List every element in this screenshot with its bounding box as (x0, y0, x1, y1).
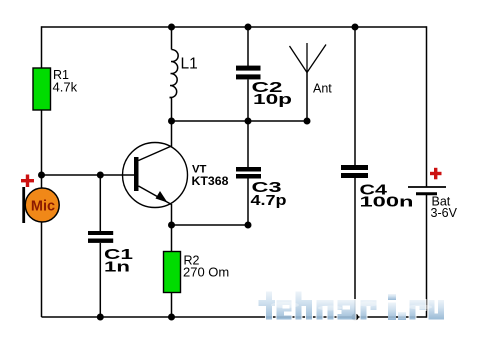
node: C3 bottom junction (245, 222, 252, 229)
transistor VT KT368 (123, 143, 188, 208)
wire: horizontal wire y=225 (172, 224, 249, 226)
microphone Mic (22, 187, 59, 223)
wire: base wire y=175 (42, 174, 136, 176)
svg-text:3-6V: 3-6V (431, 206, 458, 220)
node: L1 bottom junction (168, 118, 175, 125)
svg-text:4.7p: 4.7p (251, 193, 287, 209)
battery Bat (408, 187, 446, 194)
wire: C3 column lower (247, 179, 249, 226)
wm letter i bar (388, 303, 396, 321)
svg-text:Mic: Mic (31, 198, 55, 214)
wire: top rail y=27 (42, 26, 427, 28)
resistor R2 (164, 252, 181, 293)
wm letter i dot (388, 294, 396, 300)
wire: C4 column upper (354, 27, 356, 165)
svg-text:1n: 1n (104, 258, 130, 275)
resistor R1 (33, 68, 51, 110)
wm letter r (360, 300, 377, 321)
wire: C2 column upper (247, 27, 249, 66)
wire: horizontal rail y=121 (172, 120, 308, 122)
node: bottom junction C1 (97, 314, 104, 321)
wm letter h (295, 291, 313, 320)
capacitor C1 (88, 231, 113, 243)
wm letter a (337, 300, 356, 321)
wire: right rail x=426.5 (battery bottom segment) (426, 194, 428, 318)
node: mic junction (38, 172, 45, 179)
wire: C1 column lower (99, 243, 101, 317)
svg-text:4.7k: 4.7k (53, 80, 78, 95)
node: C1 top junction (97, 172, 104, 179)
node: bottom junction C4 (352, 314, 359, 321)
node: top junction C2 (245, 24, 252, 31)
wm letter u (428, 300, 445, 321)
wire: right rail x=426.5 (battery top segment) (426, 26, 428, 187)
mic plus sign (21, 175, 34, 188)
wire: C2 column lower (247, 80, 249, 122)
wire: emitter column (171, 204, 173, 252)
battery plus sign (430, 168, 442, 180)
svg-text:100n: 100n (360, 193, 414, 210)
wm letter t (258, 291, 276, 320)
node: top junction collector (168, 24, 175, 31)
wire: C4 column lower (354, 178, 356, 317)
node: top junction C4 (352, 24, 359, 31)
inductor L1 (170, 50, 179, 98)
node: antenna junction (304, 118, 311, 125)
svg-text:270 Om: 270 Om (183, 265, 229, 280)
watermark tehnari.ru (258, 291, 445, 320)
node: C2 bottom junction (245, 118, 252, 125)
wire: collector column below L1 (170, 97, 172, 99)
node: bottom junction R2 (168, 314, 175, 321)
wire: collector column above L1 (171, 27, 173, 50)
capacitor C4 (341, 165, 368, 178)
capacitor C2 (236, 66, 261, 80)
svg-text:KT368: KT368 (192, 174, 229, 188)
wm letter n (316, 300, 334, 321)
wm cloud highlights (271, 302, 432, 311)
node: emitter junction (168, 222, 175, 229)
wire: C3 column upper (247, 121, 249, 167)
wire: antenna column (306, 73, 308, 122)
svg-text:L1: L1 (181, 56, 198, 73)
wm letter r2 (409, 300, 426, 321)
svg-text:Ant: Ant (313, 82, 332, 96)
antenna Ant (290, 43, 327, 73)
wire: left rail x=41.5 (41, 26, 43, 317)
svg-text:10p: 10p (253, 91, 292, 108)
wire: bottom rail y=317 (42, 316, 427, 318)
wm period (398, 312, 406, 320)
wire: C1 column upper (99, 175, 101, 231)
capacitor C3 (236, 167, 261, 179)
wm letter e (276, 300, 292, 321)
